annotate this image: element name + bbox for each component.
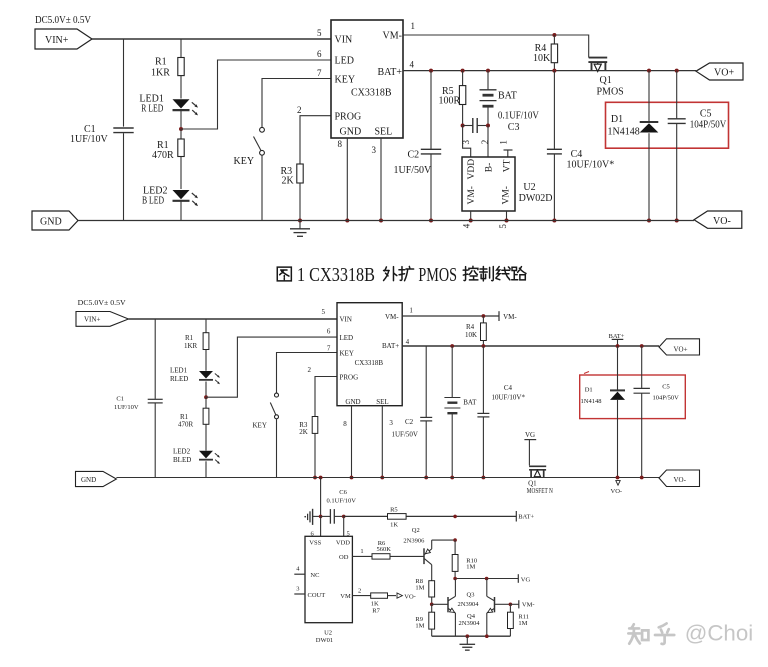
svg-text:LED: LED: [340, 334, 354, 342]
resistor R1 1KR: [180, 39, 182, 58]
capacitor C5: [676, 71, 678, 119]
svg-text:GND: GND: [340, 127, 362, 138]
junction C6 drop: [319, 476, 323, 480]
wire DW02D pin 5: [506, 211, 508, 221]
svg-text:1: 1: [409, 307, 413, 315]
svg-text:R4: R4: [466, 323, 475, 331]
svg-text:1: 1: [411, 21, 416, 31]
svg-text:1: 1: [360, 548, 363, 555]
svg-text:C5: C5: [662, 383, 670, 390]
svg-text:VM-: VM-: [503, 313, 517, 321]
wire VIN+ rail 2: [128, 318, 337, 320]
svg-text:6: 6: [317, 49, 322, 59]
op-amp U2 DW01 protector: [305, 536, 352, 622]
resistor R1 470R: [180, 129, 182, 139]
svg-text:VG: VG: [525, 431, 535, 439]
wire C1 branch: [123, 39, 125, 127]
svg-text:1N4148: 1N4148: [581, 398, 602, 405]
junction BAT 2: [450, 344, 454, 348]
junction gnd sub: [466, 634, 470, 638]
svg-text:LED: LED: [335, 56, 354, 67]
capacitor C4: [553, 71, 555, 149]
svg-text:1 CX3318B: 1 CX3318B: [297, 264, 375, 286]
junction C2: [429, 69, 433, 73]
transistor Q1 MOSFET N: [529, 465, 546, 467]
svg-text:VM-: VM-: [385, 313, 399, 321]
svg-text:VIN: VIN: [340, 315, 352, 323]
svg-text:VM: VM: [340, 593, 351, 600]
svg-text:1KR: 1KR: [151, 68, 170, 79]
svg-text:R7: R7: [372, 607, 380, 614]
svg-text:VIN: VIN: [335, 35, 353, 46]
svg-text:1M: 1M: [466, 564, 475, 571]
junction Q2 emitter top: [453, 515, 457, 519]
resistor R4 10K 2: [482, 316, 484, 323]
wire VDD pin path: [463, 126, 471, 158]
svg-text:Q1: Q1: [600, 75, 612, 86]
resistor R6 560K: [372, 554, 390, 559]
port VO- 2: [659, 470, 700, 487]
svg-text:SEL: SEL: [375, 127, 393, 138]
svg-text:DC5.0V± 0.5V: DC5.0V± 0.5V: [35, 14, 91, 26]
wire GND rail: [78, 220, 694, 222]
port VIN+ 2: [76, 312, 128, 327]
svg-text:7: 7: [327, 344, 331, 352]
svg-text:5: 5: [317, 28, 322, 38]
diode D1 1N4148: [648, 71, 650, 122]
junction Q4 collector VG: [485, 577, 489, 581]
switch KEY: [262, 79, 331, 128]
svg-text:R1: R1: [155, 57, 167, 68]
resistor R3 2K 2: [315, 377, 337, 417]
svg-text:B LED: B LED: [142, 196, 164, 207]
svg-text:5: 5: [498, 224, 508, 229]
net label BAT+ sub: [515, 511, 517, 522]
net label VG sub: [517, 574, 519, 583]
junction C5 top 2: [640, 344, 644, 348]
port VO-: [694, 211, 742, 228]
svg-text:VSS: VSS: [309, 540, 321, 547]
resistor R5 1K sub: [388, 514, 407, 520]
svg-text:1M: 1M: [415, 623, 424, 630]
svg-text:Q4: Q4: [467, 613, 476, 620]
svg-text:B-: B-: [485, 163, 495, 173]
svg-text:0.1UF/10V: 0.1UF/10V: [327, 498, 357, 505]
op-amp U2 DW02D protector: [462, 157, 515, 211]
pin COUT stub: [294, 593, 305, 595]
transistor Q1 PMOS: [589, 57, 608, 59]
svg-text:VO-: VO-: [404, 593, 416, 600]
svg-text:1UF/50V: 1UF/50V: [394, 165, 433, 176]
junction LED1 2: [204, 395, 208, 399]
port GND: [32, 211, 78, 230]
resistor R5 100R: [462, 71, 464, 86]
wire GND pin 8: [346, 138, 348, 221]
svg-text:C1: C1: [116, 396, 124, 403]
transistor Q4 2N3904 NPN mirrored: [495, 603, 511, 605]
svg-text:3: 3: [296, 586, 299, 593]
resistor R11 1M: [509, 604, 511, 612]
svg-text:VDD: VDD: [467, 159, 477, 180]
resistor R4 10K: [553, 35, 555, 44]
svg-text:C5: C5: [700, 109, 712, 120]
svg-text:3: 3: [372, 145, 377, 155]
port VO+ 2: [659, 339, 700, 355]
svg-text:SEL: SEL: [376, 398, 388, 406]
wire VG line: [455, 578, 518, 580]
svg-text:2K: 2K: [299, 428, 308, 436]
svg-text:VO-: VO-: [674, 476, 687, 484]
battery BAT 2: [451, 346, 453, 397]
LED LED1 RLED 2: [199, 371, 213, 379]
junction C5 top: [675, 69, 679, 73]
svg-text:CX3318B: CX3318B: [351, 88, 392, 99]
wire VIN+ rail: [92, 38, 331, 40]
svg-text:2N3904: 2N3904: [458, 601, 480, 608]
svg-text:C2: C2: [408, 149, 420, 160]
svg-text:VO+: VO+: [714, 68, 734, 79]
svg-text:10UF/10V*: 10UF/10V*: [567, 160, 615, 171]
svg-text:8: 8: [343, 420, 347, 428]
junction D1 top 2: [616, 344, 620, 348]
LED LED1 R LED: [173, 99, 190, 108]
svg-text:2N3906: 2N3906: [403, 537, 425, 544]
svg-text:1KR: 1KR: [184, 342, 198, 350]
pin NC stub: [294, 573, 305, 575]
svg-text:RLED: RLED: [170, 375, 188, 383]
watermark zhihu @Choi: [628, 624, 648, 643]
diode D1 1N4148 2: [617, 346, 619, 390]
pin VT stub: [507, 150, 509, 157]
op-amp U1 CX3318B controller: [331, 20, 403, 138]
svg-text:LED1: LED1: [170, 367, 188, 375]
svg-text:10K: 10K: [465, 331, 477, 339]
net label VM- sub: [510, 603, 518, 605]
svg-text:VM-: VM-: [383, 31, 402, 42]
svg-text:KEY: KEY: [340, 349, 354, 357]
op-amp U3 CX3318B controller 2: [337, 303, 402, 406]
svg-text:C3: C3: [508, 122, 520, 133]
svg-text:1N4148: 1N4148: [608, 127, 640, 138]
wire B- pin path: [487, 126, 489, 158]
svg-text:6: 6: [327, 328, 331, 336]
capacitor C1: [113, 127, 133, 129]
svg-text:COUT: COUT: [308, 592, 326, 599]
capacitor C2: [430, 71, 432, 149]
svg-text:Q3: Q3: [467, 591, 475, 598]
svg-text:DW01: DW01: [316, 637, 333, 644]
resistor R9 1M: [431, 604, 433, 612]
svg-text:BLED: BLED: [173, 456, 191, 464]
junction R10-VG: [453, 577, 457, 581]
resistor R3 2K: [300, 116, 331, 164]
svg-text:GND: GND: [345, 398, 360, 406]
svg-text:VT: VT: [503, 159, 513, 172]
capacitor C2 2: [425, 346, 427, 417]
svg-text:KEY: KEY: [335, 75, 356, 86]
svg-text:1M: 1M: [415, 585, 424, 592]
wire BAT+ rail 2: [402, 345, 659, 347]
svg-text:3: 3: [389, 419, 393, 427]
svg-text:1K: 1K: [390, 522, 398, 529]
svg-text:BAT+: BAT+: [382, 342, 399, 350]
switch KEY 2: [277, 353, 338, 394]
svg-text:5: 5: [322, 308, 326, 316]
svg-text:104P/50V: 104P/50V: [653, 395, 680, 402]
svg-text:VG: VG: [521, 577, 531, 584]
svg-text:VM-: VM-: [502, 186, 512, 204]
svg-text:Q2: Q2: [412, 527, 420, 534]
capacitor C6: [329, 509, 331, 524]
junction Q2 emitter: [453, 538, 457, 542]
svg-text:C4: C4: [504, 384, 513, 392]
svg-text:3: 3: [461, 140, 471, 145]
svg-text:1UF/10V: 1UF/10V: [70, 134, 109, 145]
svg-text:VIN+: VIN+: [45, 35, 69, 46]
LED LED2 BLED 2: [199, 451, 213, 459]
svg-text:KEY: KEY: [253, 421, 267, 429]
svg-text:7: 7: [317, 68, 322, 78]
wire VDD pin: [343, 516, 345, 536]
svg-text:KEY: KEY: [234, 156, 255, 167]
junction R4 2: [482, 314, 486, 318]
port GND 2: [76, 471, 117, 486]
svg-text:BAT+: BAT+: [518, 514, 534, 521]
svg-text:0.1UF/10V: 0.1UF/10V: [498, 111, 540, 122]
wire to R5: [344, 515, 388, 517]
junction gnd-C6: [319, 515, 323, 519]
transistor Q3 2N3904 NPN: [432, 603, 448, 605]
svg-text:GND: GND: [81, 476, 96, 484]
junction C4 top: [552, 69, 556, 73]
svg-text:10K: 10K: [533, 53, 551, 64]
svg-text:1UF/10V: 1UF/10V: [114, 404, 139, 411]
resistor R7 1K: [371, 593, 388, 598]
svg-text:PMOS: PMOS: [418, 264, 457, 286]
svg-text:D1: D1: [611, 114, 623, 125]
wire BAT+ rail: [403, 70, 696, 72]
svg-text:2: 2: [297, 105, 302, 115]
junction Q4 emitter rail: [485, 634, 489, 638]
junction C3 left: [461, 124, 465, 128]
svg-text:10UF/10V*: 10UF/10V*: [492, 393, 526, 401]
port VIN+: [35, 29, 92, 49]
svg-text:VM-: VM-: [522, 602, 535, 609]
wire VM pin 2: [352, 595, 370, 597]
svg-text:2N3904: 2N3904: [459, 620, 481, 627]
wire bottom rail sub: [432, 635, 511, 637]
resistor R1 470R 2: [205, 397, 207, 408]
junction R8-R9 base Q3: [430, 603, 434, 607]
svg-text:560K: 560K: [377, 546, 392, 553]
svg-text:DW02D: DW02D: [519, 193, 553, 204]
port VO+: [696, 63, 743, 80]
svg-text:DC5.0V± 0.5V: DC5.0V± 0.5V: [78, 298, 127, 307]
svg-text:1UF/50V: 1UF/50V: [392, 431, 418, 439]
svg-text:BAT: BAT: [498, 90, 517, 101]
svg-text:U2: U2: [324, 629, 332, 636]
svg-text:2: 2: [308, 366, 312, 374]
svg-text:PMOS: PMOS: [597, 87, 624, 98]
junction BAT: [486, 69, 490, 73]
svg-text:4: 4: [461, 223, 471, 228]
red corner tick: [584, 372, 589, 374]
capacitor C5 2: [641, 346, 643, 388]
svg-text:U2: U2: [523, 182, 535, 193]
svg-text:D1: D1: [585, 387, 593, 394]
caption figure title: [277, 267, 291, 281]
junction D1 top: [647, 69, 651, 73]
capacitor C4 2: [482, 346, 484, 413]
svg-text:VO-: VO-: [713, 216, 731, 227]
svg-text:470R: 470R: [178, 420, 194, 428]
svg-text:@Choi: @Choi: [685, 621, 754, 646]
wire LED feedback: [181, 60, 331, 129]
resistor R1 1KR 2: [205, 319, 207, 333]
wire DW02D pin 4: [470, 211, 472, 221]
ground rotated left: [312, 509, 314, 525]
junction VM- R4: [552, 33, 556, 37]
svg-text:470R: 470R: [152, 150, 174, 161]
svg-text:2K: 2K: [282, 176, 295, 187]
svg-text:4: 4: [410, 60, 415, 70]
svg-text:PROG: PROG: [335, 112, 362, 123]
svg-text:PROG: PROG: [340, 373, 359, 381]
junction R3-gnd: [298, 219, 302, 223]
red highlight box D1 C5: [606, 102, 729, 148]
wire OD pin 1: [352, 555, 372, 557]
svg-text:4: 4: [406, 338, 410, 346]
svg-text:1K: 1K: [371, 600, 379, 607]
wire SEL pin 3 2: [381, 406, 383, 478]
red highlight box 2: [580, 375, 686, 419]
svg-text:2: 2: [480, 140, 490, 145]
svg-text:NC: NC: [310, 572, 319, 579]
svg-text:8: 8: [338, 139, 343, 149]
svg-text:MOSFET N: MOSFET N: [527, 487, 553, 495]
junction LED1-R1b: [179, 127, 183, 131]
svg-text:VO-: VO-: [611, 488, 623, 495]
svg-text:LED2: LED2: [173, 447, 191, 455]
wire GND pin 8 2: [351, 406, 353, 478]
wire SEL pin 3: [380, 138, 382, 221]
battery BAT: [487, 71, 489, 90]
capacitor C3: [463, 125, 473, 127]
svg-text:104P/50V: 104P/50V: [690, 120, 727, 131]
svg-text:R5: R5: [390, 506, 398, 513]
svg-text:BAT+: BAT+: [377, 67, 402, 78]
svg-text:C2: C2: [405, 418, 414, 426]
svg-text:VO+: VO+: [674, 345, 688, 353]
svg-text:C6: C6: [339, 489, 347, 496]
junction R5: [461, 69, 465, 73]
junction C6-VDD: [342, 515, 346, 519]
svg-text:CX3318B: CX3318B: [355, 359, 384, 367]
svg-text:R1: R1: [185, 334, 194, 342]
LED LED2 B LED: [173, 190, 190, 199]
svg-text:1M: 1M: [518, 620, 527, 627]
svg-text:VM-: VM-: [467, 186, 477, 204]
svg-text:C4: C4: [571, 149, 583, 160]
junction C4 2: [482, 344, 486, 348]
svg-text:1: 1: [499, 140, 509, 145]
resistor R10 1M: [454, 540, 456, 554]
svg-text:2: 2: [358, 587, 361, 594]
svg-text:100R: 100R: [439, 96, 461, 107]
ground symbol sub: [466, 636, 468, 644]
wire VM- net 2: [402, 315, 499, 317]
junction Q4 base: [509, 603, 513, 607]
svg-text:VDD: VDD: [336, 540, 350, 547]
svg-text:VIN+: VIN+: [84, 316, 100, 324]
ground symbol top circuit: [299, 221, 301, 229]
wire C6 drop: [320, 478, 322, 517]
svg-text:OD: OD: [339, 554, 349, 561]
svg-text:R LED: R LED: [141, 104, 163, 115]
wire LED feedback 2: [206, 337, 337, 397]
resistor R8 1M: [429, 581, 435, 597]
svg-text:BAT: BAT: [463, 398, 477, 406]
svg-text:GND: GND: [40, 217, 62, 228]
wire GND rail 2: [116, 477, 659, 479]
wire VM- net: [403, 35, 589, 58]
net marker VO- below rail: [616, 481, 620, 486]
wire VSS pin: [320, 516, 322, 536]
capacitor C1 2: [154, 319, 156, 399]
